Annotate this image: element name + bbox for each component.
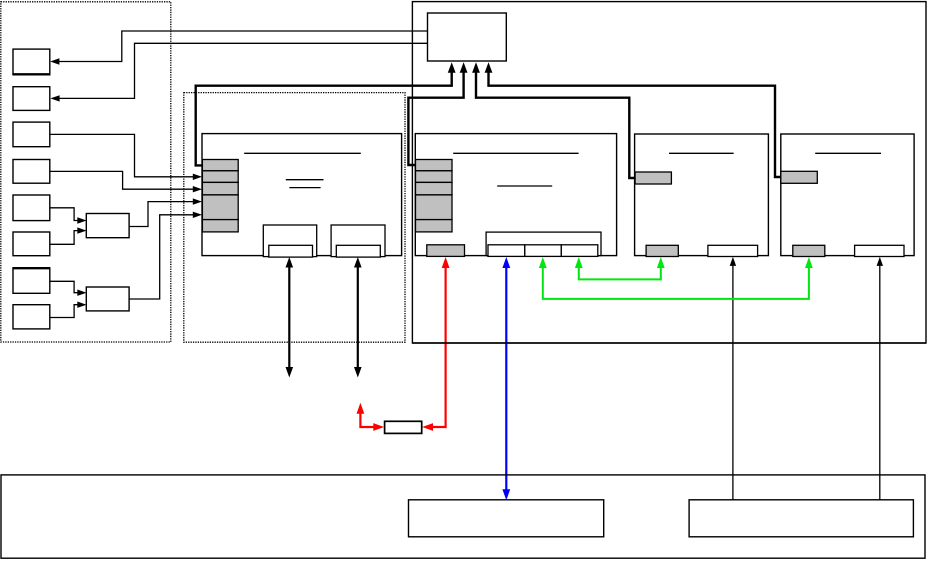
arrowhead up into M4 connector xyxy=(877,257,883,266)
red arrowhead left into small box xyxy=(422,423,433,431)
left box b4 xyxy=(13,160,50,184)
module M1 title line xyxy=(244,152,361,154)
blue wire from M2 connector cell1 to bottom inner box1 xyxy=(505,264,507,493)
green arrowhead up into M2 cell3 xyxy=(575,257,583,268)
module M1 text line a xyxy=(286,179,324,181)
black wire from M3 white connector to bottom inner box2 xyxy=(732,263,734,500)
arrowhead into B upper xyxy=(77,290,86,296)
green arrowhead up into M4 gray port xyxy=(805,257,813,268)
module M1 port stack row1 xyxy=(202,160,238,171)
module M2 box xyxy=(415,134,616,256)
arrowhead into A upper xyxy=(77,217,86,223)
left box b5 xyxy=(13,195,50,221)
left box b7 thick top border xyxy=(12,267,50,269)
module M4 bottom white connector xyxy=(855,245,904,256)
wire b4 to M1 port row3 xyxy=(50,171,194,189)
wire b3 to M1 port row2 xyxy=(50,134,193,176)
wire top box to b1 xyxy=(59,31,428,62)
arrowhead into b1 xyxy=(50,58,59,64)
module M2 bottom connector cell1 xyxy=(488,245,525,257)
left box b1 thick bottom border xyxy=(12,73,50,75)
left box b2 xyxy=(13,87,50,111)
module M1 bottom connector B outer xyxy=(331,225,385,257)
module M2 port stack row3 xyxy=(416,182,453,195)
double arrow 2 below M1 connector B xyxy=(357,264,359,371)
module M1 box xyxy=(202,134,402,256)
module M2 title line xyxy=(453,152,578,154)
module M1 text line b xyxy=(289,187,320,189)
left box b6 xyxy=(13,232,50,256)
black wire from M4 white connector to bottom inner box2 xyxy=(879,263,881,500)
outer solid enclosure bottom edge redraw xyxy=(412,342,926,344)
arrowhead into M1 row2 xyxy=(193,174,202,180)
module M3 left gray port xyxy=(635,172,671,184)
left box b7 xyxy=(13,268,50,293)
module M1 port stack row5 xyxy=(202,220,238,232)
green arrowhead up into M3 gray port xyxy=(657,257,665,268)
dotted enclosure around module M1 xyxy=(184,93,405,343)
red arrowhead up on stub xyxy=(357,403,365,414)
module M1 bottom connector A outer xyxy=(263,225,316,257)
outer dotted enclosure left xyxy=(1,2,171,342)
double arrow 2 down head xyxy=(354,367,362,378)
module M2 port stack row4 xyxy=(416,195,453,220)
arrowhead into b2 xyxy=(50,95,59,101)
double arrow 2 up head xyxy=(354,257,362,268)
module M2 text line xyxy=(497,185,552,187)
left box b1 xyxy=(13,49,50,74)
arrowhead into A lower xyxy=(77,227,86,233)
bottom inner box1 xyxy=(409,500,604,537)
module M4 left gray port xyxy=(781,171,818,183)
module M3 bottom white connector xyxy=(708,245,758,256)
double arrow 1 up head xyxy=(286,257,294,268)
arrowhead into B lower xyxy=(77,302,86,308)
arrowhead W4 into top box xyxy=(485,62,493,73)
arrowhead into M1 row4 upper xyxy=(193,198,202,204)
blue arrowhead down into bottom box1 xyxy=(502,489,510,500)
arrowhead W1 into top box xyxy=(448,62,456,73)
module M3 box xyxy=(635,134,769,256)
red arrowhead up into M2 port xyxy=(442,257,450,268)
module M1 port stack row4 xyxy=(202,195,238,220)
arrowhead into M1 row4 lower xyxy=(193,212,202,218)
bottom big box xyxy=(1,475,925,558)
module M4 bottom gray port xyxy=(793,245,825,256)
module M1 port stack row2 xyxy=(202,171,238,183)
merge box A xyxy=(86,214,129,238)
wire top box to b2 xyxy=(59,43,428,98)
left box b8 xyxy=(13,305,50,329)
double arrow 1 down head xyxy=(286,367,294,378)
module M2 bottom connector outer xyxy=(486,232,601,256)
module M2 bottom connector cell3 xyxy=(561,245,598,257)
red stub wire with up arrow xyxy=(360,411,375,427)
module M1 port stack row3 xyxy=(202,182,238,195)
thick wire W4 from M4 left port to top box xyxy=(489,71,782,177)
module M3 bottom gray port xyxy=(646,245,678,256)
module M1 bottom connector B inner xyxy=(336,245,380,257)
arrowhead W2 into top box xyxy=(460,62,468,73)
arrowhead into M1 row3 xyxy=(193,186,202,192)
double arrow 1 below M1 connector A xyxy=(288,264,290,371)
module M4 title line xyxy=(815,152,881,154)
module M2 port stack row5 xyxy=(416,220,453,232)
outer solid enclosure right xyxy=(412,2,926,343)
wire b5 to merge A xyxy=(50,208,78,221)
thick wire W2 from M2 port row1 to top box xyxy=(408,71,463,165)
thick wire W1 from M1 port row1 to top box xyxy=(196,71,452,165)
wire merge B to M1 port row4 lower xyxy=(129,215,193,299)
blue arrowhead up into M2 cell1 xyxy=(502,257,510,268)
wire b7 to merge B xyxy=(50,281,78,292)
top box xyxy=(428,13,507,61)
red wire from M2 bottom gray port to small box xyxy=(431,265,446,427)
module M4 box xyxy=(781,134,914,256)
green wire A between M2 cell3 and M3 gray port xyxy=(579,265,661,279)
module M2 port stack row2 xyxy=(416,171,453,183)
left box b3 xyxy=(13,122,50,147)
wire merge A to M1 port row4 xyxy=(129,202,193,227)
small box fed by red wire xyxy=(385,421,422,433)
module M3 title line xyxy=(669,152,734,154)
green wire B between M2 cell2 and M4 gray port xyxy=(543,265,809,299)
arrowhead up into M3 connector xyxy=(730,257,736,266)
merge box B xyxy=(86,287,129,311)
wire b6 to merge A xyxy=(50,231,78,245)
module M2 bottom gray port xyxy=(427,245,465,257)
module M2 bottom connector cell2 xyxy=(525,245,562,257)
arrowhead W3 into top box xyxy=(472,62,480,73)
thick wire W3 from M3 left port to top box xyxy=(476,71,636,178)
wire b8 to merge B xyxy=(50,305,78,318)
green arrowhead up into M2 cell2 xyxy=(539,257,547,268)
red arrowhead right into small box xyxy=(373,423,384,431)
module M2 port stack row1 xyxy=(416,160,453,171)
bottom inner box2 xyxy=(689,500,913,537)
module M1 bottom connector A inner xyxy=(269,245,313,257)
